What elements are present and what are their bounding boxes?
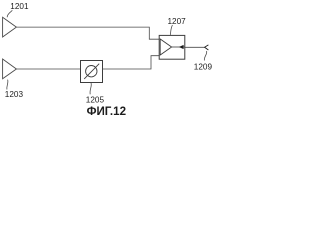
leader line to label 1209 xyxy=(204,51,206,61)
output wire to port 1209 xyxy=(185,46,205,48)
wire from antenna 1203 to phase shifter xyxy=(16,68,80,70)
leader line to label 1205 xyxy=(90,83,91,94)
combiner output line xyxy=(172,46,185,48)
svg-text:ФИГ.12: ФИГ.12 xyxy=(87,105,126,118)
wire from phase shifter to combiner bottom input xyxy=(103,56,160,69)
combiner U1207 box xyxy=(159,35,185,59)
antenna 1201 xyxy=(3,17,17,37)
leader line to antenna 1203 xyxy=(7,80,8,90)
phase shifter circle xyxy=(86,66,97,77)
phase shifter slash xyxy=(84,64,99,79)
svg-text:1203: 1203 xyxy=(5,90,24,99)
svg-text:1201: 1201 xyxy=(10,2,29,11)
svg-text:1209: 1209 xyxy=(194,63,212,72)
leader line to combiner 1207 xyxy=(171,25,173,35)
leader line to antenna 1201 xyxy=(7,10,12,17)
antenna 1203 xyxy=(3,59,17,79)
port 1209 open arrow xyxy=(205,45,209,50)
svg-text:1207: 1207 xyxy=(168,17,187,26)
combiner triangle xyxy=(160,39,171,55)
wire from antenna 1201 to combiner top input xyxy=(16,27,159,39)
phase shifter U1205 box xyxy=(81,61,103,83)
arrowhead on combiner output xyxy=(179,45,184,49)
svg-text:1205: 1205 xyxy=(86,96,105,105)
